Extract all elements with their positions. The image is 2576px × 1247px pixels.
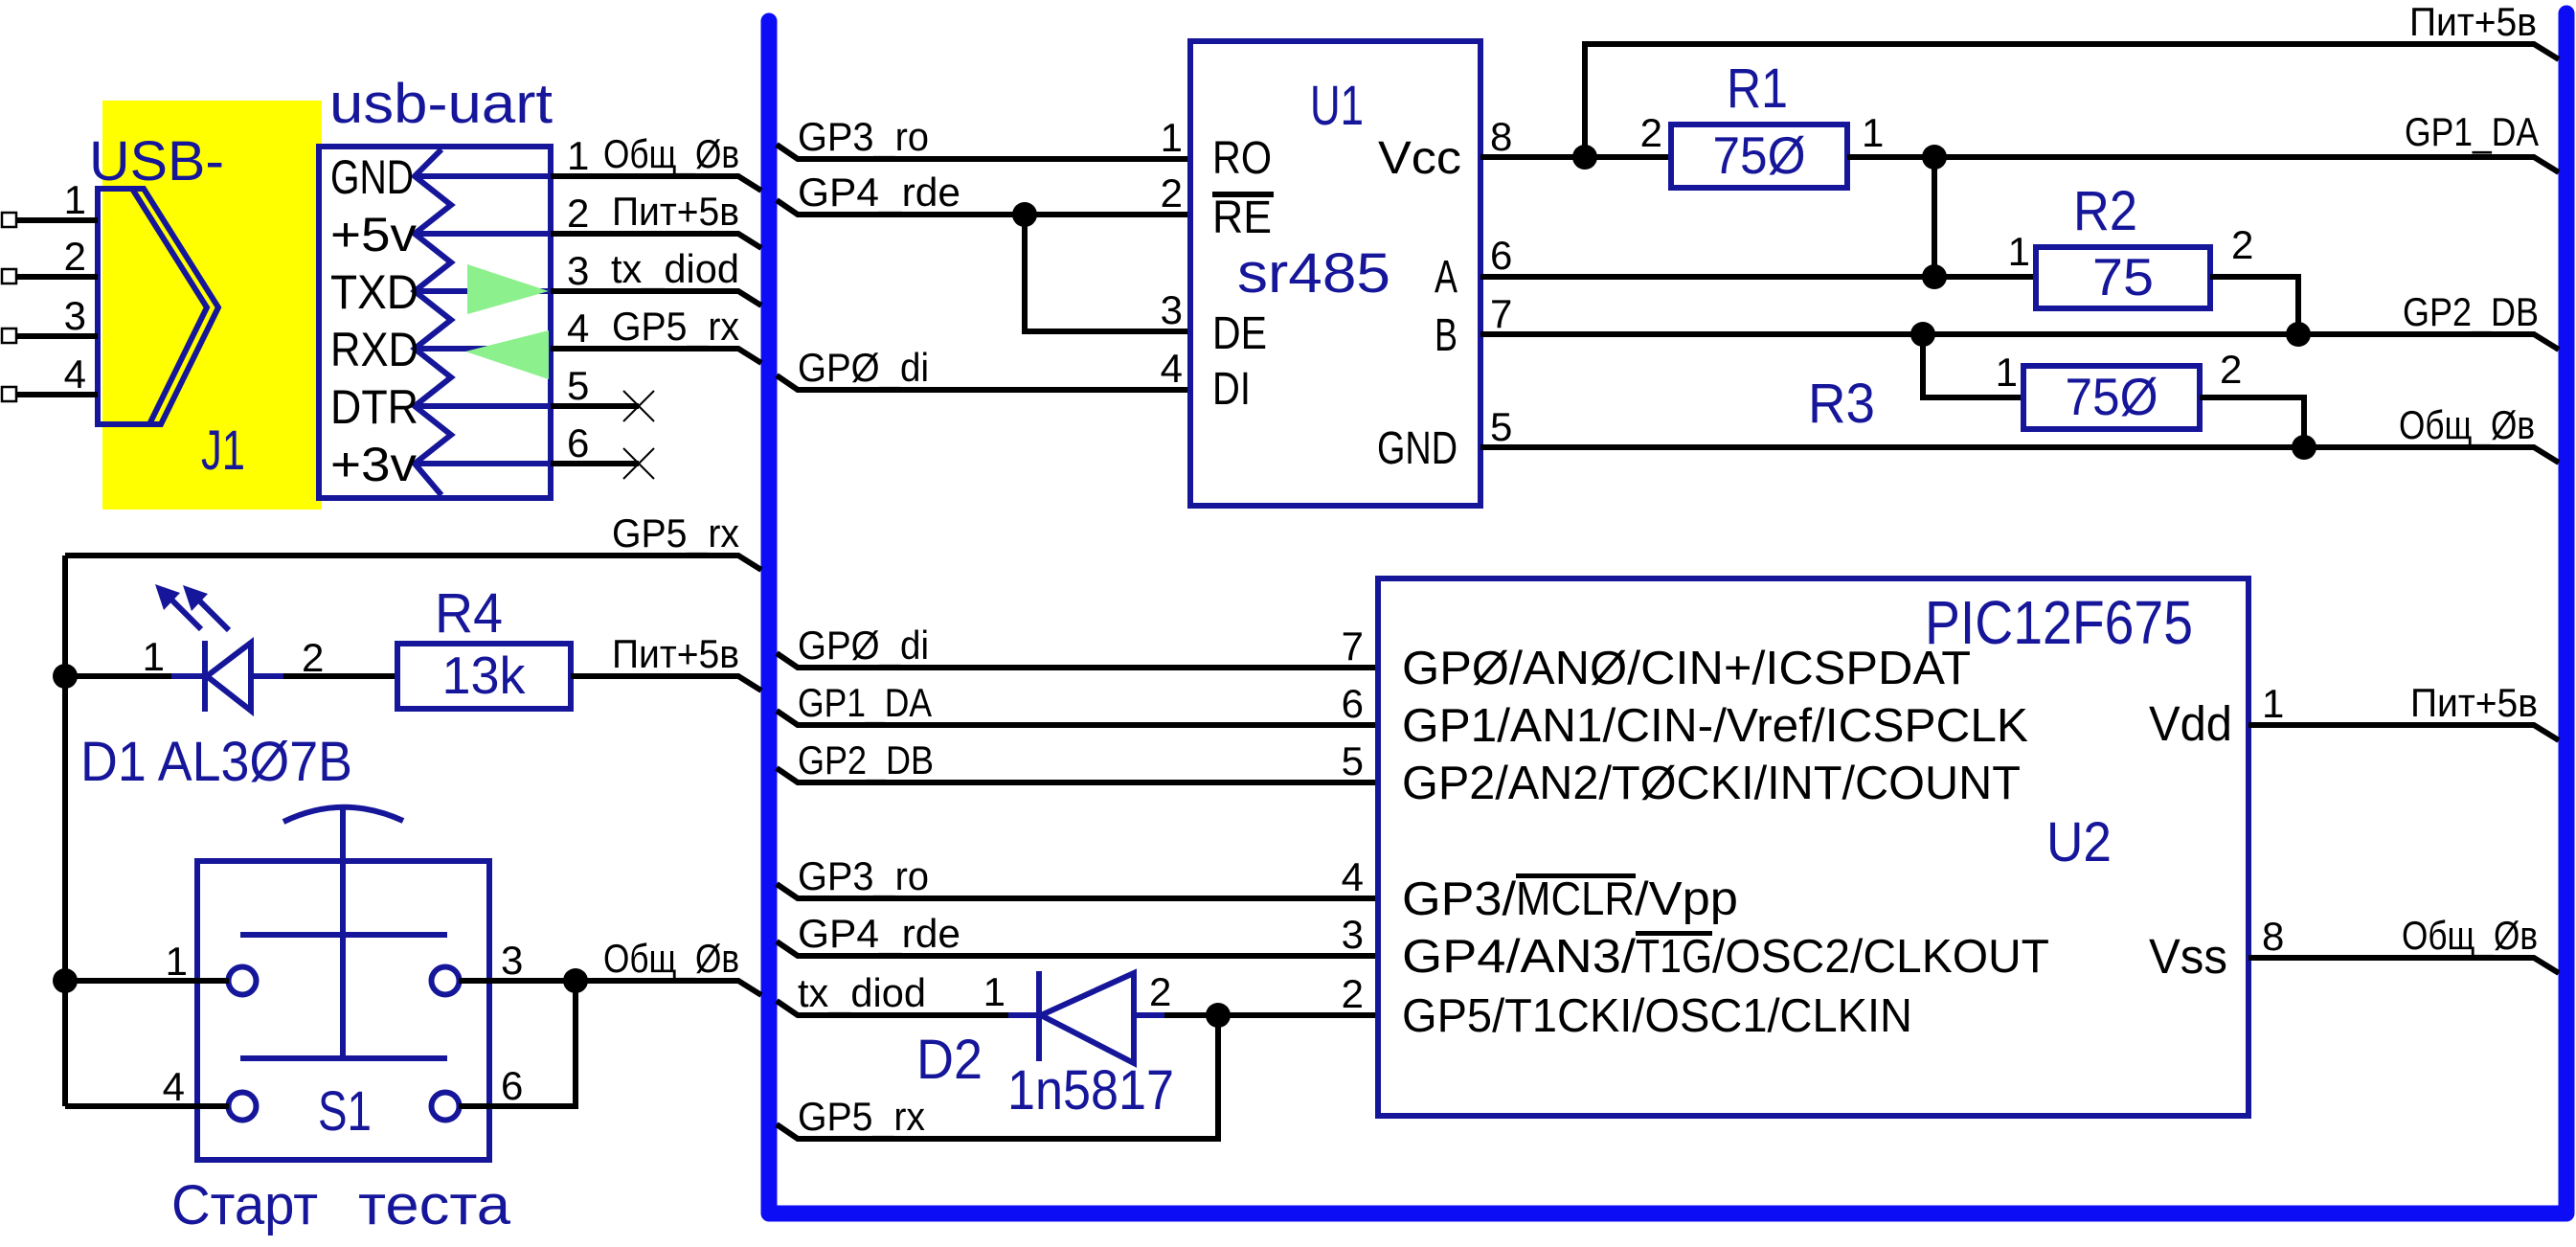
svg-text:2: 2 — [1640, 110, 1662, 155]
S1 contact bar bottom — [240, 1055, 447, 1061]
svg-text:5: 5 — [1342, 738, 1364, 783]
wire R1 to bus GP1_DA — [1847, 157, 2559, 172]
svg-text:3: 3 — [1342, 912, 1364, 957]
svg-text:Пит+5в: Пит+5в — [612, 189, 739, 234]
wire GP3_ro bus to U1 RO — [777, 145, 1190, 159]
svg-text:tx_diod: tx_diod — [611, 246, 739, 291]
junction on RE wire — [1012, 202, 1037, 227]
svg-text:1: 1 — [166, 939, 188, 984]
svg-text:75Ø: 75Ø — [1713, 125, 1806, 185]
svg-text:6: 6 — [1342, 681, 1364, 726]
svg-text:2: 2 — [1342, 971, 1364, 1016]
nc X pin5 — [623, 391, 654, 421]
svg-text:2: 2 — [1149, 969, 1171, 1014]
S1 pin stub 3 — [459, 978, 489, 984]
resistor R2 — [2036, 247, 2210, 308]
wire R1 junction down to A — [1932, 157, 1937, 277]
svg-text:TXD: TXD — [330, 265, 418, 319]
wire junction down to DE — [1025, 215, 1190, 331]
wire Vdd to bus — [2248, 725, 2559, 740]
junction D2 out — [1206, 1003, 1231, 1028]
diode D2 stub right — [1134, 1012, 1164, 1018]
junction S1 pin3 — [563, 968, 588, 993]
wire left vertical — [62, 555, 68, 1106]
svg-text:Пит+5в: Пит+5в — [2410, 680, 2538, 725]
svg-text:8: 8 — [2262, 914, 2284, 959]
connector J1 inner chevron — [132, 189, 207, 424]
wire GP5_rx top left — [65, 555, 761, 570]
nc X pin6 — [623, 448, 654, 479]
svg-text:GP3_ro: GP3_ro — [798, 114, 929, 159]
usb-uart box — [319, 147, 551, 498]
wire J1 pin1 — [16, 217, 98, 223]
S1 pin circle 3 — [432, 967, 460, 995]
wire Vss to bus — [2248, 958, 2559, 973]
J1 yellow highlight — [102, 101, 322, 510]
svg-text:GP2_DB: GP2_DB — [2403, 289, 2539, 334]
svg-text:Пит+5в: Пит+5в — [2409, 0, 2537, 44]
svg-text:+5v: +5v — [330, 208, 417, 261]
svg-text:T1G: T1G — [1636, 931, 1712, 983]
svg-text:1: 1 — [983, 969, 1006, 1014]
svg-text:Пит+5в: Пит+5в — [612, 631, 739, 676]
svg-text:D2: D2 — [916, 1029, 983, 1091]
svg-text:D1 AL3Ø7B: D1 AL3Ø7B — [80, 731, 352, 793]
wire GP4_rde bus to U1 RE — [777, 200, 1190, 215]
pin stub TXD — [415, 288, 551, 294]
svg-text:USB-: USB- — [89, 130, 224, 193]
svg-text:GPØ/ANØ/CIN+/ICSPDAT: GPØ/ANØ/CIN+/ICSPDAT — [1402, 643, 1971, 694]
S1 pin stub 4 — [197, 1103, 229, 1109]
pin square 1 — [2, 213, 16, 227]
svg-text:2: 2 — [302, 635, 324, 680]
svg-text:RE: RE — [1212, 193, 1272, 243]
diode D2 cathode bar — [1036, 971, 1042, 1061]
LED D1 stub right — [251, 673, 283, 679]
wire U1 B to bus GP2_DB — [1480, 334, 2559, 350]
svg-text:Vcc: Vcc — [1378, 133, 1461, 184]
T1G overline — [1636, 931, 1712, 936]
wire GP1_DA bus to U2 pin6 — [777, 711, 1378, 725]
U2 box — [1378, 578, 2248, 1116]
svg-text:Общ_Øв: Общ_Øв — [603, 131, 739, 176]
svg-text:теста: теста — [358, 1174, 511, 1236]
svg-text:4: 4 — [64, 351, 86, 397]
svg-text:8: 8 — [1490, 114, 1512, 159]
wire uart pin1 to bus — [551, 176, 761, 191]
svg-text:1: 1 — [1862, 110, 1884, 155]
svg-text:5: 5 — [567, 363, 589, 408]
svg-text:4: 4 — [567, 306, 589, 351]
wire uart pin4 to bus — [551, 349, 761, 363]
wire U1 A to R2 — [1480, 274, 2036, 280]
svg-text:3: 3 — [501, 938, 523, 983]
pin stub RXD — [415, 346, 551, 351]
svg-text:2: 2 — [567, 191, 589, 236]
junction on A wire — [1922, 264, 1947, 289]
LED arrow 1 — [155, 584, 201, 629]
LED D1 stub left — [171, 673, 205, 679]
wire uart pin2 to bus — [551, 234, 761, 248]
usb-uart zigzag — [415, 149, 451, 495]
S1 arc — [283, 807, 403, 822]
green arrow tx — [467, 264, 549, 314]
svg-text:1: 1 — [143, 634, 165, 679]
junction Vcc riser — [1572, 145, 1597, 170]
svg-text:GP4_rde: GP4_rde — [798, 170, 960, 215]
svg-text:5: 5 — [1490, 404, 1512, 449]
wire tx_diod bus to D2 — [777, 1001, 1033, 1015]
pin stub +3v — [415, 461, 551, 466]
S1 pin stub 1 — [197, 978, 229, 984]
svg-text:1: 1 — [2008, 229, 2030, 274]
wire uart pin3 to bus — [551, 291, 761, 306]
svg-text:tx_diod: tx_diod — [798, 970, 926, 1015]
pin square 3 — [2, 329, 16, 343]
switch S1 box — [197, 861, 489, 1160]
svg-text:4: 4 — [1161, 346, 1183, 391]
junction R3 to GND wire — [2292, 435, 2316, 460]
wire uart pin5 nc — [551, 403, 639, 409]
S1 contact bar top — [240, 932, 447, 938]
svg-text:GND: GND — [1377, 423, 1457, 474]
resistor R1 — [1671, 125, 1847, 188]
svg-text:GP1/AN1/CIN-/Vref/ICSPCLK: GP1/AN1/CIN-/Vref/ICSPCLK — [1402, 700, 2028, 752]
svg-text:2: 2 — [64, 234, 86, 279]
svg-text:S1: S1 — [318, 1080, 372, 1143]
svg-text:GP5_rx: GP5_rx — [798, 1094, 925, 1139]
svg-text:3: 3 — [567, 248, 589, 293]
svg-text:1: 1 — [2262, 681, 2284, 726]
wire J1 pin2 — [16, 274, 98, 280]
wire riser to top — [1585, 44, 2559, 157]
svg-text:1: 1 — [567, 133, 589, 178]
wire GP3_ro bus to U2 pin4 — [777, 884, 1378, 898]
LED D1 cathode bar — [202, 641, 208, 712]
svg-text:GP4/AN3/: GP4/AN3/ — [1402, 931, 1636, 983]
svg-text:Vdd: Vdd — [2149, 696, 2232, 751]
svg-text:A: A — [1435, 252, 1457, 303]
svg-text:GP4_rde: GP4_rde — [798, 911, 960, 956]
svg-text:R2: R2 — [2073, 180, 2137, 242]
LED arrow 2 — [183, 585, 229, 630]
svg-text:DI: DI — [1212, 364, 1251, 415]
wire to S1 pin1 — [65, 978, 229, 984]
svg-text:1: 1 — [1996, 350, 2018, 395]
junction R2 to B wire — [2286, 322, 2311, 347]
wire D2 to U2 pin2 — [1164, 1012, 1378, 1018]
U1 box — [1190, 41, 1480, 506]
svg-text:/OSC2/CLKOUT: /OSC2/CLKOUT — [1712, 931, 2049, 983]
wire GP0_di bus to U2 pin7 — [777, 653, 1378, 668]
svg-text:GP1_DA: GP1_DA — [2405, 109, 2539, 154]
svg-text:Общ_Øв: Общ_Øв — [2402, 913, 2538, 958]
S1 pin circle 4 — [229, 1093, 257, 1121]
pin square 2 — [2, 269, 16, 283]
svg-text:13k: 13k — [442, 646, 526, 705]
svg-text:U1: U1 — [1310, 75, 1364, 137]
wire J1 pin3 — [16, 333, 98, 339]
svg-text:1n5817: 1n5817 — [1007, 1059, 1174, 1122]
wire B junction down to R3 — [1923, 334, 2023, 397]
wire junction down to pin6 — [459, 981, 576, 1106]
wire to S1 pin4 — [65, 1103, 229, 1109]
svg-text:RXD: RXD — [330, 323, 418, 376]
svg-text:DTR: DTR — [330, 380, 418, 434]
wire Vcc pin8 to R1 — [1480, 154, 1671, 160]
U1 pin name RE overline — [1212, 192, 1274, 197]
svg-text:Vss: Vss — [2149, 929, 2227, 984]
svg-text:MCLR: MCLR — [1516, 873, 1635, 925]
svg-text:GP5_rx: GP5_rx — [612, 304, 739, 349]
svg-text:75Ø: 75Ø — [2066, 367, 2158, 426]
svg-text:Старт: Старт — [171, 1174, 318, 1236]
svg-text:2: 2 — [2220, 347, 2242, 392]
wire to LED anode — [65, 673, 201, 679]
wire U1 GND to bus — [1480, 447, 2559, 463]
junction S1 pin1 — [53, 968, 78, 993]
S1 pin stub 6 — [459, 1103, 489, 1109]
svg-text:GPØ_di: GPØ_di — [798, 345, 929, 390]
svg-text:/Vpp: /Vpp — [1635, 873, 1738, 925]
svg-text:2: 2 — [1161, 170, 1183, 215]
svg-text:Общ_Øв: Общ_Øв — [603, 936, 739, 981]
wire GP0_di bus to U1 DI — [777, 375, 1190, 390]
svg-text:6: 6 — [567, 420, 589, 465]
junction B to R3 — [1910, 322, 1935, 347]
svg-text:1: 1 — [64, 177, 86, 222]
svg-text:6: 6 — [501, 1063, 523, 1108]
S1 plunger — [340, 806, 346, 1058]
wire J1 pin4 — [16, 392, 98, 397]
svg-text:7: 7 — [1342, 623, 1364, 669]
wire GP2_DB bus to U2 pin5 — [777, 768, 1378, 782]
green arrow rx — [465, 330, 549, 379]
svg-text:RO: RO — [1212, 133, 1272, 184]
svg-text:R4: R4 — [435, 582, 503, 645]
pin stub GND — [415, 173, 551, 179]
svg-text:B: B — [1435, 310, 1457, 361]
wire S1 pin3 to bus — [459, 981, 761, 995]
svg-text:1: 1 — [1161, 115, 1183, 160]
svg-text:GP2_DB: GP2_DB — [798, 737, 934, 782]
wire R3 down to GND net — [2200, 397, 2304, 447]
resistor R4 — [397, 644, 571, 709]
wire R4 to bus — [571, 676, 761, 691]
resistor R3 — [2023, 366, 2200, 429]
svg-text:+3v: +3v — [330, 438, 417, 491]
svg-text:4: 4 — [1342, 854, 1364, 899]
svg-text:GP5/T1CKI/OSC1/CLKIN: GP5/T1CKI/OSC1/CLKIN — [1402, 990, 1912, 1042]
svg-text:usb-uart: usb-uart — [329, 73, 553, 135]
pin stub +5v — [415, 231, 551, 237]
svg-text:GP5_rx: GP5_rx — [612, 510, 739, 555]
svg-text:75: 75 — [2092, 247, 2154, 306]
svg-text:GPØ_di: GPØ_di — [798, 623, 929, 668]
wire R2 to GP2_DB — [2210, 277, 2298, 334]
bus (left, bottom, right) — [769, 13, 2566, 1213]
MCLR overline — [1516, 873, 1636, 878]
LED D1 triangle — [207, 643, 251, 711]
junction LED — [53, 664, 78, 689]
diode D2 triangle — [1041, 973, 1134, 1063]
svg-text:DE: DE — [1212, 308, 1267, 359]
pin square 4 — [2, 387, 16, 401]
svg-text:3: 3 — [64, 293, 86, 338]
svg-text:GP1_DA: GP1_DA — [798, 680, 932, 725]
wire GP5_rx bus to D2 junction — [777, 1015, 1218, 1139]
svg-text:GP2/AN2/TØCKI/INT/COUNT: GP2/AN2/TØCKI/INT/COUNT — [1402, 758, 2021, 809]
svg-text:7: 7 — [1490, 291, 1512, 336]
svg-text:R1: R1 — [1727, 57, 1788, 120]
pin stub DTR — [415, 403, 551, 409]
svg-text:Общ_Øв: Общ_Øв — [2399, 402, 2535, 447]
svg-text:U2: U2 — [2046, 811, 2112, 873]
svg-text:3: 3 — [1161, 287, 1183, 332]
svg-text:J1: J1 — [201, 419, 245, 482]
svg-text:6: 6 — [1490, 233, 1512, 278]
svg-text:R3: R3 — [1808, 373, 1875, 435]
svg-text:2: 2 — [2231, 222, 2253, 267]
diode D2 stub left — [1008, 1012, 1039, 1018]
junction R1-R2 — [1922, 145, 1947, 170]
wire GP4_rde bus to U2 pin3 — [777, 941, 1378, 956]
S1 pin circle 1 — [229, 967, 257, 995]
svg-text:sr485: sr485 — [1237, 242, 1390, 305]
wire uart pin6 nc — [551, 461, 639, 466]
svg-text:GP3/: GP3/ — [1402, 873, 1516, 925]
svg-text:GND: GND — [330, 150, 414, 204]
connector J1 body — [98, 189, 218, 424]
svg-text:4: 4 — [163, 1064, 185, 1109]
svg-text:GP3_ro: GP3_ro — [798, 853, 929, 898]
wire LED to R4 — [283, 673, 397, 679]
S1 pin circle 6 — [432, 1093, 460, 1121]
